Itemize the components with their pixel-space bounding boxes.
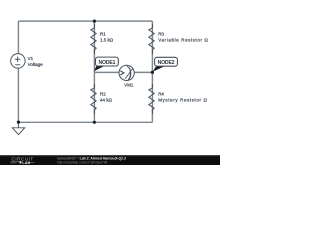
wire top horizontal	[18, 20, 152, 22]
wire voltmeter horizontal right	[134, 71, 152, 73]
wire bottom horizontal	[18, 121, 152, 123]
node B pointer NODE2	[153, 66, 166, 72]
svg-text:R4: R4	[158, 92, 164, 97]
voltage source V1	[11, 54, 26, 69]
svg-text:Voltage: Voltage	[28, 62, 44, 67]
node A pointer NODE1	[94, 65, 106, 71]
node B label NODE2	[155, 57, 178, 66]
resistor R2	[91, 84, 96, 114]
svg-text:R3: R3	[158, 32, 164, 37]
svg-text:NODE1: NODE1	[98, 60, 115, 66]
ground	[12, 122, 24, 134]
resistor R1	[91, 24, 96, 54]
svg-text:44 kΩ: 44 kΩ	[100, 98, 113, 103]
wire middle column	[93, 21, 95, 122]
wire left column upper	[17, 21, 19, 54]
watermark logo LAB	[11, 161, 35, 165]
resistor R3	[149, 24, 154, 54]
svg-text:R1: R1	[100, 32, 106, 37]
svg-text:R2: R2	[100, 92, 106, 97]
svg-text:NODE2: NODE2	[158, 60, 175, 66]
junction top of R1	[93, 20, 96, 23]
wire voltmeter horizontal left	[94, 71, 119, 73]
junction bottom of R2	[93, 121, 96, 124]
svg-text:Mystery Resistor Ω: Mystery Resistor Ω	[158, 98, 207, 103]
wire left column lower	[17, 68, 19, 122]
svg-text:VM1: VM1	[124, 82, 134, 87]
resistor R4	[149, 84, 154, 114]
svg-text:V1: V1	[28, 56, 34, 61]
voltmeter VM1	[119, 65, 134, 80]
svg-text:http://circuitlab.com/c/7pfhzj: http://circuitlab.com/c/7pfhzjwa799	[57, 160, 108, 164]
wire right column	[151, 21, 153, 122]
watermark bar	[0, 155, 220, 165]
node A label NODE1	[96, 57, 119, 66]
svg-text:1.5 kΩ: 1.5 kΩ	[100, 38, 114, 43]
junction ground node	[17, 121, 20, 124]
junction right at VM wire	[151, 71, 154, 74]
svg-text:Variable Resistor Ω: Variable Resistor Ω	[158, 38, 208, 43]
svg-text:LAB: LAB	[22, 161, 30, 165]
